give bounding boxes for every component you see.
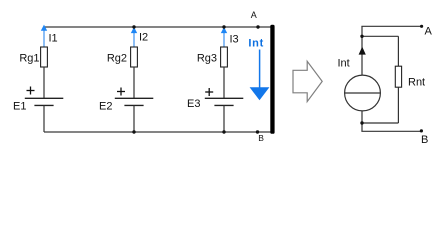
- svg-text:E1: E1: [13, 101, 26, 113]
- svg-text:Rg1: Rg1: [19, 52, 39, 64]
- svg-text:Rg3: Rg3: [197, 53, 217, 65]
- svg-text:I1: I1: [49, 33, 58, 45]
- svg-text:A: A: [425, 26, 433, 38]
- svg-text:E2: E2: [99, 101, 112, 113]
- svg-text:Int: Int: [338, 58, 350, 70]
- svg-text:A: A: [251, 10, 257, 20]
- svg-text:I3: I3: [230, 34, 239, 46]
- svg-text:Rnt: Rnt: [408, 77, 425, 89]
- svg-text:E3: E3: [187, 98, 200, 110]
- svg-text:Rg2: Rg2: [107, 53, 127, 65]
- svg-text:B: B: [421, 134, 428, 146]
- svg-text:I2: I2: [139, 32, 148, 44]
- svg-text:Int: Int: [248, 38, 264, 50]
- svg-text:B: B: [258, 133, 264, 143]
